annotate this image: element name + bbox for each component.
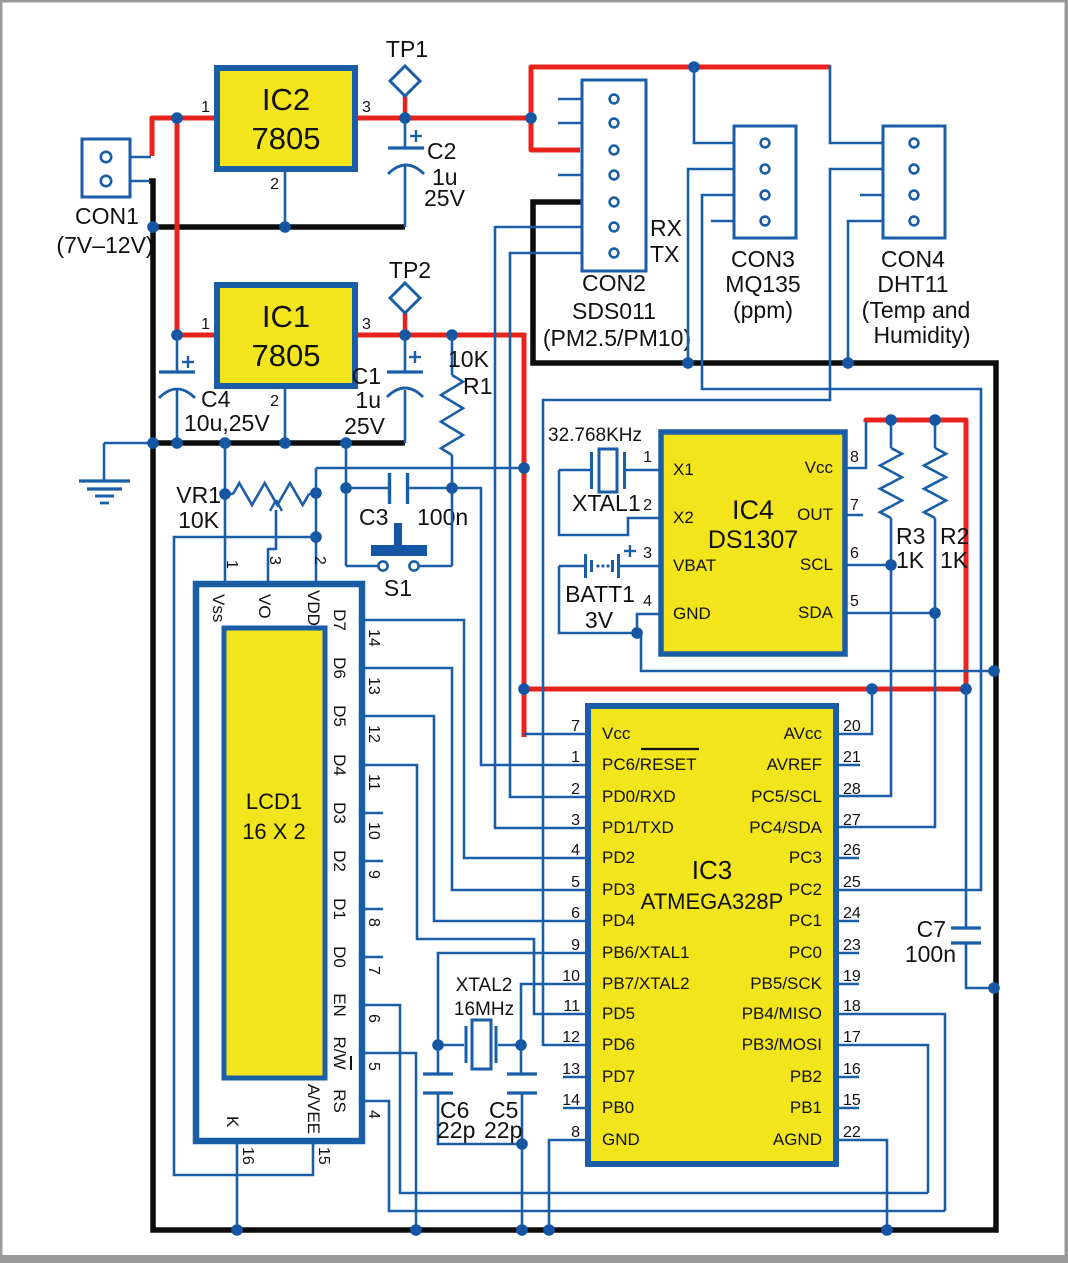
CON2 pin hole 6 [610, 223, 619, 232]
wire: GND bus to earth symbol [104, 442, 153, 445]
wire: IC3 PB7/XTAL2 to crystal [521, 984, 588, 1045]
svg-text:PB2: PB2 [790, 1067, 822, 1086]
svg-text:1: 1 [223, 560, 240, 569]
wire: LCD Vss to VR1/GND [224, 494, 227, 585]
wire: red 5V vertical to IC3 Vcc [522, 333, 527, 737]
svg-text:100n: 100n [417, 504, 468, 530]
node: C4 on GND bus [171, 437, 183, 449]
wire: GND branch to C3/S1 [345, 443, 348, 566]
wire: IC3 PC3 stub [836, 857, 859, 860]
capacitor C2 positive lead [404, 118, 407, 148]
ground symbol [79, 479, 130, 482]
switch S1 contacts [378, 561, 387, 570]
capacitor C6 plates [423, 1072, 453, 1075]
wire: CON4 pin2 data to IC3 PD6 [543, 169, 883, 1045]
capacitor C2 bottom lead [404, 166, 407, 227]
svg-text:32.768KHz: 32.768KHz [548, 425, 642, 446]
svg-text:IC4: IC4 [732, 495, 774, 525]
node: SCL / R3 junction [885, 559, 897, 571]
CON2 pin hole 2 [610, 119, 619, 128]
svg-text:7: 7 [365, 966, 382, 975]
svg-text:1K: 1K [896, 547, 925, 573]
CON2 pin hole 3 [610, 146, 619, 155]
svg-text:19: 19 [843, 968, 861, 985]
svg-text:10K: 10K [448, 346, 490, 372]
battery BATT1 dots [596, 564, 599, 567]
svg-text:R1: R1 [463, 373, 492, 399]
node: VDD backlight branch [310, 531, 322, 543]
svg-text:10u,25V: 10u,25V [184, 410, 270, 436]
svg-text:PC6/RESET: PC6/RESET [602, 755, 696, 774]
svg-text:D1: D1 [330, 898, 349, 920]
potentiometer VR1 wiper arrow [268, 510, 276, 585]
svg-text:27: 27 [843, 812, 861, 829]
wire: CON1 pin2 stub [130, 180, 150, 183]
wire: CON3 pin2 to GND line [688, 169, 734, 363]
capacitor C6 top lead [437, 1045, 440, 1074]
display LCD1 outer body [196, 584, 362, 1141]
capacitor C4 curved plate [159, 389, 195, 398]
wire: CON3 pin3 analog out to IC3 PC2 [702, 195, 981, 890]
wire: IC3 PB5/SCK stub [836, 983, 859, 986]
svg-text:X2: X2 [673, 508, 694, 527]
capacitor C1 bottom lead [404, 390, 407, 443]
svg-text:D0: D0 [330, 946, 349, 968]
CON4 pin hole 3 [910, 191, 919, 200]
wire: XTAL1 wrap to X2 [559, 470, 661, 535]
wire: LCD EN to IC3 PB3/MOSI [362, 1005, 928, 1193]
regulator IC2 7805 body [217, 68, 355, 169]
wire: red IC1 pin1 feed [177, 333, 218, 338]
svg-text:17: 17 [843, 1029, 861, 1046]
svg-text:(7V–12V): (7V–12V) [56, 232, 153, 258]
CON4 pin hole 1 [910, 139, 919, 148]
svg-text:D7: D7 [330, 609, 349, 631]
wire: IC4 SDA stub [845, 612, 935, 615]
page frame border [0, 0, 1068, 3]
svg-text:PD1/TXD: PD1/TXD [602, 818, 674, 837]
svg-text:VBAT: VBAT [673, 556, 716, 575]
wire: IC3 PB6/XTAL1 to crystal [438, 953, 588, 1045]
svg-text:1: 1 [571, 749, 580, 766]
svg-text:1: 1 [201, 316, 210, 333]
wire: SDA net R2 to IC3 PC4 [836, 613, 935, 827]
CON2 pin hole 7 [610, 249, 619, 258]
svg-text:RX: RX [650, 215, 682, 241]
wire: red riser to top rail [531, 67, 830, 120]
svg-text:CON2: CON2 [582, 270, 646, 296]
wire: IC3 PB2 stub [836, 1076, 859, 1079]
svg-text:Humidity): Humidity) [873, 322, 970, 348]
svg-text:11: 11 [563, 998, 580, 1015]
svg-text:VR1: VR1 [176, 482, 221, 508]
wire: red TP2 stub [403, 313, 408, 337]
wire: S1 right lead [419, 565, 452, 568]
wire: black GND bus under IC2 [153, 224, 405, 230]
svg-text:2: 2 [270, 176, 279, 193]
svg-text:12: 12 [562, 1029, 580, 1046]
test point TP2 diamond [390, 283, 420, 313]
svg-text:4: 4 [643, 593, 652, 610]
svg-text:PB7/XTAL2: PB7/XTAL2 [602, 974, 690, 993]
svg-text:PD4: PD4 [602, 911, 635, 930]
wire: red IC2 pin3 output to CON2 [355, 116, 531, 121]
CON3 pin hole 3 [761, 191, 770, 200]
node: 5V branch on red rail [518, 462, 530, 474]
wire: GND bus to VR1 left [224, 443, 227, 494]
svg-text:Vcc: Vcc [602, 724, 631, 743]
node: junction red top rail to CON3 [688, 61, 700, 73]
capacitor C5 plates [507, 1072, 537, 1075]
svg-text:10: 10 [562, 968, 580, 985]
svg-text:(PM2.5/PM10): (PM2.5/PM10) [543, 325, 691, 351]
svg-text:12: 12 [365, 725, 382, 743]
svg-text:25V: 25V [344, 413, 386, 439]
svg-text:28: 28 [843, 781, 861, 798]
node: IC4 GND / BATT junction [631, 627, 643, 639]
svg-text:23: 23 [843, 937, 861, 954]
svg-text:26: 26 [843, 842, 861, 859]
svg-text:IC1: IC1 [262, 299, 310, 334]
svg-text:CON4: CON4 [881, 246, 945, 272]
svg-text:D5: D5 [330, 705, 349, 727]
svg-text:100n: 100n [905, 941, 956, 967]
node: VR1 left junction [219, 488, 231, 500]
wire: 5V branch to LCD VDD [316, 467, 524, 470]
svg-text:4: 4 [365, 1110, 382, 1119]
wire: IC3 pin8 GND to bottom bus [549, 1140, 588, 1230]
svg-text:C3: C3 [359, 504, 388, 530]
node: junction IC2 out / C2 / TP1 [399, 112, 411, 124]
crystal XTAL1 body [599, 449, 617, 492]
svg-text:14: 14 [365, 629, 382, 647]
node: CON4 GND on black line [842, 357, 854, 369]
svg-text:C7: C7 [917, 916, 946, 942]
svg-text:PB6/XTAL1: PB6/XTAL1 [602, 943, 690, 962]
node: C5 on bottom bus [516, 1224, 528, 1236]
wire: CON2 RX to IC3 PD1/TXD [495, 227, 588, 828]
svg-text:X1: X1 [673, 460, 694, 479]
capacitor C1 curved plate [387, 388, 423, 397]
IC3 RESET overline [641, 748, 699, 750]
svg-text:10K: 10K [178, 507, 220, 533]
svg-text:PD7: PD7 [602, 1067, 635, 1086]
svg-text:15: 15 [315, 1147, 332, 1165]
node: 5V tee to IC3 Vcc [518, 683, 530, 695]
svg-text:AGND: AGND [773, 1130, 822, 1149]
svg-text:(ppm): (ppm) [733, 297, 793, 323]
node: CON3 GND on black line [682, 357, 694, 369]
wire: IC4 OUT stub [845, 514, 863, 517]
svg-text:6: 6 [571, 905, 580, 922]
capacitor C4 plus sign [182, 361, 194, 363]
svg-text:TP2: TP2 [389, 257, 431, 283]
svg-text:1: 1 [643, 449, 652, 466]
svg-text:16MHz: 16MHz [454, 999, 514, 1020]
svg-text:DHT11: DHT11 [877, 271, 948, 297]
CON4 pin hole 4 [910, 217, 919, 226]
svg-text:MQ135: MQ135 [725, 271, 800, 297]
capacitor C4 bottom lead [176, 390, 179, 443]
wire: red vertical unregulated to IC1 pin1 [175, 116, 180, 335]
svg-text:1K: 1K [940, 547, 969, 573]
node: C3 right / RESET junction [446, 482, 458, 494]
svg-text:S1: S1 [384, 575, 412, 601]
svg-text:C2: C2 [427, 138, 456, 164]
wire: red 5V horizontal to RTC area [524, 687, 966, 692]
CON1 pin hole 1 [101, 152, 111, 162]
capacitor C7 plates [951, 926, 981, 929]
svg-text:ATMEGA328P: ATMEGA328P [641, 889, 784, 914]
capacitor C5 top lead [520, 1045, 523, 1074]
svg-text:22: 22 [843, 1124, 861, 1141]
switch S1 actuator [394, 523, 402, 547]
svg-text:PC4/SDA: PC4/SDA [749, 818, 822, 837]
svg-text:9: 9 [365, 870, 382, 879]
svg-text:PC0: PC0 [789, 943, 822, 962]
svg-text:2: 2 [270, 393, 279, 410]
svg-text:5: 5 [850, 593, 859, 610]
wire: SCL net R3 to IC3 PC5 [836, 565, 891, 796]
node: SDA / R2 junction [929, 607, 941, 619]
svg-text:D4: D4 [330, 754, 349, 776]
wire: LCD D6 to IC3 PD3 [362, 668, 588, 890]
wire: LCD RS to IC3 PB4/MISO [362, 1101, 945, 1211]
svg-text:BATT1: BATT1 [565, 581, 635, 607]
wire: black GND loop CON1 pin2 down, bottom bus, right side up to CON2 pin5 [149, 181, 996, 1230]
capacitor C2 curved plate [388, 165, 424, 174]
svg-text:PB4/MISO: PB4/MISO [742, 1004, 822, 1023]
resistor R1 10K [441, 375, 463, 455]
svg-text:XTAL2: XTAL2 [456, 975, 513, 996]
svg-text:PC5/SCL: PC5/SCL [751, 787, 822, 806]
svg-text:SDA: SDA [798, 603, 834, 622]
RTC IC4 DS1307 body [661, 432, 845, 654]
svg-text:4: 4 [571, 842, 580, 859]
node: crystal right junction [515, 1039, 527, 1051]
svg-text:7: 7 [571, 718, 580, 735]
wire: LCD data stub NC [362, 812, 383, 815]
wire: IC3 PB3/MOSI to LCD EN [836, 1045, 928, 1193]
wire: BATT1 negative to IC4 GND [559, 566, 994, 671]
svg-text:22p: 22p [437, 1117, 475, 1143]
svg-text:5: 5 [365, 1062, 382, 1071]
CON3 pin hole 1 [761, 139, 770, 148]
svg-text:PD2: PD2 [602, 848, 635, 867]
node: junction R1 top on 5V [446, 329, 458, 341]
svg-text:C1: C1 [352, 363, 381, 389]
node: C5/C6 GND junction [516, 1138, 528, 1150]
CON2 pin hole 1 [610, 95, 619, 104]
node: junction red at CON1 riser [171, 112, 183, 124]
wire: black GND bus under IC1 [153, 440, 405, 446]
svg-text:21: 21 [843, 749, 861, 766]
svg-text:PB5/SCK: PB5/SCK [750, 974, 822, 993]
wire: LCD R/W to GND bus [362, 1053, 416, 1230]
svg-text:Vcc: Vcc [805, 458, 834, 477]
svg-text:IC3: IC3 [692, 855, 732, 885]
svg-text:AVREF: AVREF [767, 755, 822, 774]
wire: CON2 pin1 stub [558, 98, 582, 101]
capacitor C4 top plate [159, 370, 195, 373]
capacitor C3 left lead [346, 487, 388, 490]
svg-text:16: 16 [239, 1147, 256, 1165]
display LCD1 screen [224, 628, 325, 1078]
svg-text:18: 18 [843, 998, 861, 1015]
capacitor C2 plus sign [410, 135, 422, 137]
node: AVcc on red 5V [866, 683, 878, 695]
wire: IC4 Vcc to red rail [845, 422, 866, 468]
svg-text:TP1: TP1 [386, 36, 428, 62]
wire: IC4 SCL stub [845, 564, 891, 567]
svg-text:PB1: PB1 [790, 1098, 822, 1117]
wire: IC4 GND pin drop [637, 614, 661, 633]
svg-text:GND: GND [673, 604, 711, 623]
wire: red RTC top rail [866, 420, 966, 691]
MCU IC3 ATMEGA328P body [588, 706, 836, 1164]
svg-text:D2: D2 [330, 850, 349, 872]
wire: CON1 pin1 stub [130, 156, 151, 159]
node: VR1 branch on GND bus [219, 437, 231, 449]
crystal XTAL2 leads [438, 1044, 464, 1047]
node: C7 branch red corner [960, 683, 972, 695]
CON2 pin hole 4 [610, 171, 619, 180]
svg-text:SCL: SCL [800, 555, 833, 574]
node: red junction IC1 pin1 [171, 329, 183, 341]
svg-text:3: 3 [362, 316, 371, 333]
svg-text:7: 7 [850, 497, 859, 514]
svg-text:VO: VO [255, 594, 274, 619]
wire: 5V to CON3 pin1 [694, 67, 734, 143]
svg-text:PB0: PB0 [602, 1098, 634, 1117]
svg-text:CON3: CON3 [731, 246, 795, 272]
potentiometer VR1 10K body [233, 483, 309, 505]
connector CON1 [82, 139, 130, 197]
svg-text:7805: 7805 [252, 121, 321, 156]
node: GND line to black bus [988, 665, 1000, 677]
svg-text:22p: 22p [484, 1117, 522, 1143]
svg-text:10: 10 [365, 822, 382, 840]
capacitor C7 top lead [965, 691, 968, 928]
svg-text:OUT: OUT [797, 505, 833, 524]
node: IC2 pin2 on GND bus [279, 221, 291, 233]
svg-text:3: 3 [362, 99, 371, 116]
svg-text:3: 3 [643, 545, 652, 562]
connector CON4 [883, 126, 945, 238]
svg-text:GND: GND [602, 1130, 640, 1149]
wire: CON3 pin4 stub [711, 220, 734, 223]
capacitor C3 plates [388, 473, 391, 504]
crystal XTAL2 body [472, 1020, 491, 1069]
svg-text:5: 5 [571, 874, 580, 891]
node: C7 to black GND [988, 982, 1000, 994]
svg-text:D3: D3 [330, 802, 349, 824]
wire: LCD D4 to IC3 PD5 [362, 765, 588, 1014]
node: C3/S1 branch on GND bus [340, 437, 352, 449]
svg-text:3V: 3V [585, 607, 614, 633]
wire: IC3 pin13 stub [563, 1076, 588, 1079]
capacitor C5 bottom lead [521, 1093, 524, 1230]
capacitor C1 top lead [404, 335, 407, 372]
wire: RESET net to IC3 pin1 [452, 488, 588, 765]
battery BATT1 leads [559, 565, 584, 568]
svg-text:24: 24 [843, 905, 861, 922]
wire: LCD data stub NC [362, 908, 383, 911]
node: R2 top on red [929, 414, 941, 426]
wire: red TP1 stub [403, 96, 408, 120]
svg-text:3: 3 [266, 556, 283, 565]
wire: S1 left lead [346, 565, 378, 568]
svg-text:PC2: PC2 [789, 880, 822, 899]
svg-text:1u: 1u [355, 387, 381, 413]
svg-text:RS: RS [330, 1089, 349, 1113]
svg-text:2: 2 [311, 556, 328, 565]
CON3 pin hole 2 [761, 165, 770, 174]
node: crystal left junction [432, 1039, 444, 1051]
svg-text:EN: EN [330, 993, 349, 1017]
svg-text:11: 11 [365, 774, 382, 791]
node: IC1 pin2 on GND bus [279, 437, 291, 449]
svg-text:8: 8 [365, 918, 382, 927]
svg-text:AVcc: AVcc [784, 724, 823, 743]
svg-text:R3: R3 [896, 523, 925, 549]
svg-text:(Temp and: (Temp and [862, 297, 971, 323]
wire: 5V rail to CON4 pin1 [830, 65, 883, 143]
svg-text:TX: TX [650, 241, 679, 267]
node: LCD R/W on bottom bus [410, 1224, 422, 1236]
battery BATT1 plus sign [624, 550, 636, 552]
connector CON2 [582, 80, 646, 271]
svg-text:PB3/MOSI: PB3/MOSI [742, 1035, 822, 1054]
svg-text:14: 14 [562, 1092, 580, 1109]
node: R3 top on red [885, 414, 897, 426]
capacitor C6 bottom lead [438, 1093, 522, 1144]
svg-text:13: 13 [562, 1061, 580, 1078]
wire: LCD D7 to IC3 PD2 [362, 620, 588, 858]
wire: backlight A/VEE feed [174, 537, 316, 1175]
capacitor C1 plus sign [409, 356, 421, 358]
svg-text:6: 6 [850, 545, 859, 562]
wire: CON4 pin4 to GND line [848, 221, 883, 363]
wire: IC3 PC0 stub [836, 952, 859, 955]
crystal XTAL1 plates [590, 452, 593, 489]
svg-text:1: 1 [201, 99, 210, 116]
wire: IC2 pin2 to GND bus [284, 169, 287, 227]
svg-text:A/VEE: A/VEE [304, 1084, 323, 1134]
svg-text:3: 3 [571, 812, 580, 829]
wire: IC3 AVcc to red [836, 691, 872, 734]
wire: IC1 pin2 to GND bus [284, 386, 287, 443]
wire: IC3 AGND to bottom bus [836, 1140, 887, 1230]
svg-text:PD5: PD5 [602, 1004, 635, 1023]
regulator IC1 7805 body [217, 285, 355, 386]
svg-text:VDD: VDD [304, 590, 323, 626]
wire: IC3 PB4/MISO to LCD RS [836, 1014, 945, 1211]
node: VR1 right junction on VDD riser [310, 487, 322, 499]
svg-text:8: 8 [571, 1124, 580, 1141]
svg-text:Vss: Vss [209, 594, 228, 622]
battery BATT1 plates [584, 554, 587, 578]
capacitor C3 right lead [409, 487, 452, 490]
wire: LCD K to GND bus [236, 1141, 239, 1230]
node: earth stub on GND bus [147, 437, 159, 449]
svg-text:15: 15 [843, 1092, 861, 1109]
svg-text:DS1307: DS1307 [708, 526, 798, 554]
capacitor C7 bottom lead [966, 943, 994, 988]
svg-text:SDS011: SDS011 [572, 298, 656, 324]
svg-text:7805: 7805 [252, 338, 321, 373]
CON2 pin hole 5 [610, 198, 619, 207]
